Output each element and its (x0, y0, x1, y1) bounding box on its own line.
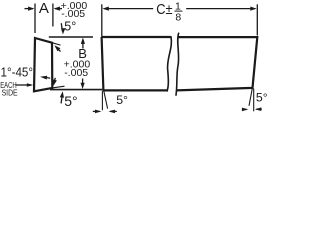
wedge top edge extension (52, 43, 61, 45)
blade side view left section (102, 36, 171, 38)
svg-text:8: 8 (175, 12, 181, 24)
vertical reference bottom-left (101, 91, 103, 110)
dimension A arrow left (25, 8, 34, 10)
extension line C right (256, 4, 258, 35)
extension line A-right (52, 4, 54, 27)
reference line B bottom (50, 89, 102, 91)
reference line B top (49, 36, 93, 38)
svg-text:1°-45°: 1°-45° (1, 65, 34, 80)
svg-text:5°: 5° (64, 20, 76, 34)
svg-text:5°: 5° (256, 90, 268, 104)
fraction bar (175, 10, 183, 12)
dimension A arrow right (54, 7, 60, 11)
arrow left of bottom-right callout (243, 108, 247, 110)
arrow right of bottom-right callout (255, 107, 261, 111)
svg-text:5°: 5° (116, 93, 128, 107)
arrow to bottom ref line (bottom 5deg) (61, 95, 62, 103)
arrow inside wedge (44, 76, 51, 79)
extension line C left (101, 4, 103, 37)
arrow to horizontal ref (top 5deg) (61, 23, 62, 31)
arrow to wedge top edge (top 5deg) (56, 47, 60, 51)
arrow to wedge bottom edge (bottom 5deg) (54, 78, 55, 83)
dimension C arrow left (103, 7, 109, 11)
svg-text:5°: 5° (64, 93, 77, 109)
leader arrow EACH SIDE (16, 84, 32, 86)
svg-text:-.005: -.005 (64, 67, 88, 79)
vertical reference bottom-right (253, 89, 255, 112)
break line right (176, 33, 179, 96)
arrow left of bottom-left callout (93, 110, 100, 112)
dimension B arrow up (81, 38, 85, 44)
blade side view right section (176, 37, 257, 90)
dimension C arrow right (186, 8, 255, 10)
front clearance edge extension left (104, 92, 108, 109)
blade end view outline (34, 38, 52, 91)
svg-text:A: A (39, 0, 49, 17)
svg-text:SIDE: SIDE (2, 88, 18, 97)
wedge bottom edge extension (52, 86, 64, 88)
svg-text:-.005: -.005 (61, 8, 85, 20)
svg-text:1: 1 (175, 0, 181, 12)
break line left (167, 36, 172, 91)
extension line A-left (34, 4, 36, 34)
svg-text:C±: C± (156, 2, 172, 18)
arrow right of bottom-left callout (109, 110, 115, 114)
dimension B arrow down (82, 79, 84, 87)
rear clearance edge extension right (249, 89, 252, 106)
